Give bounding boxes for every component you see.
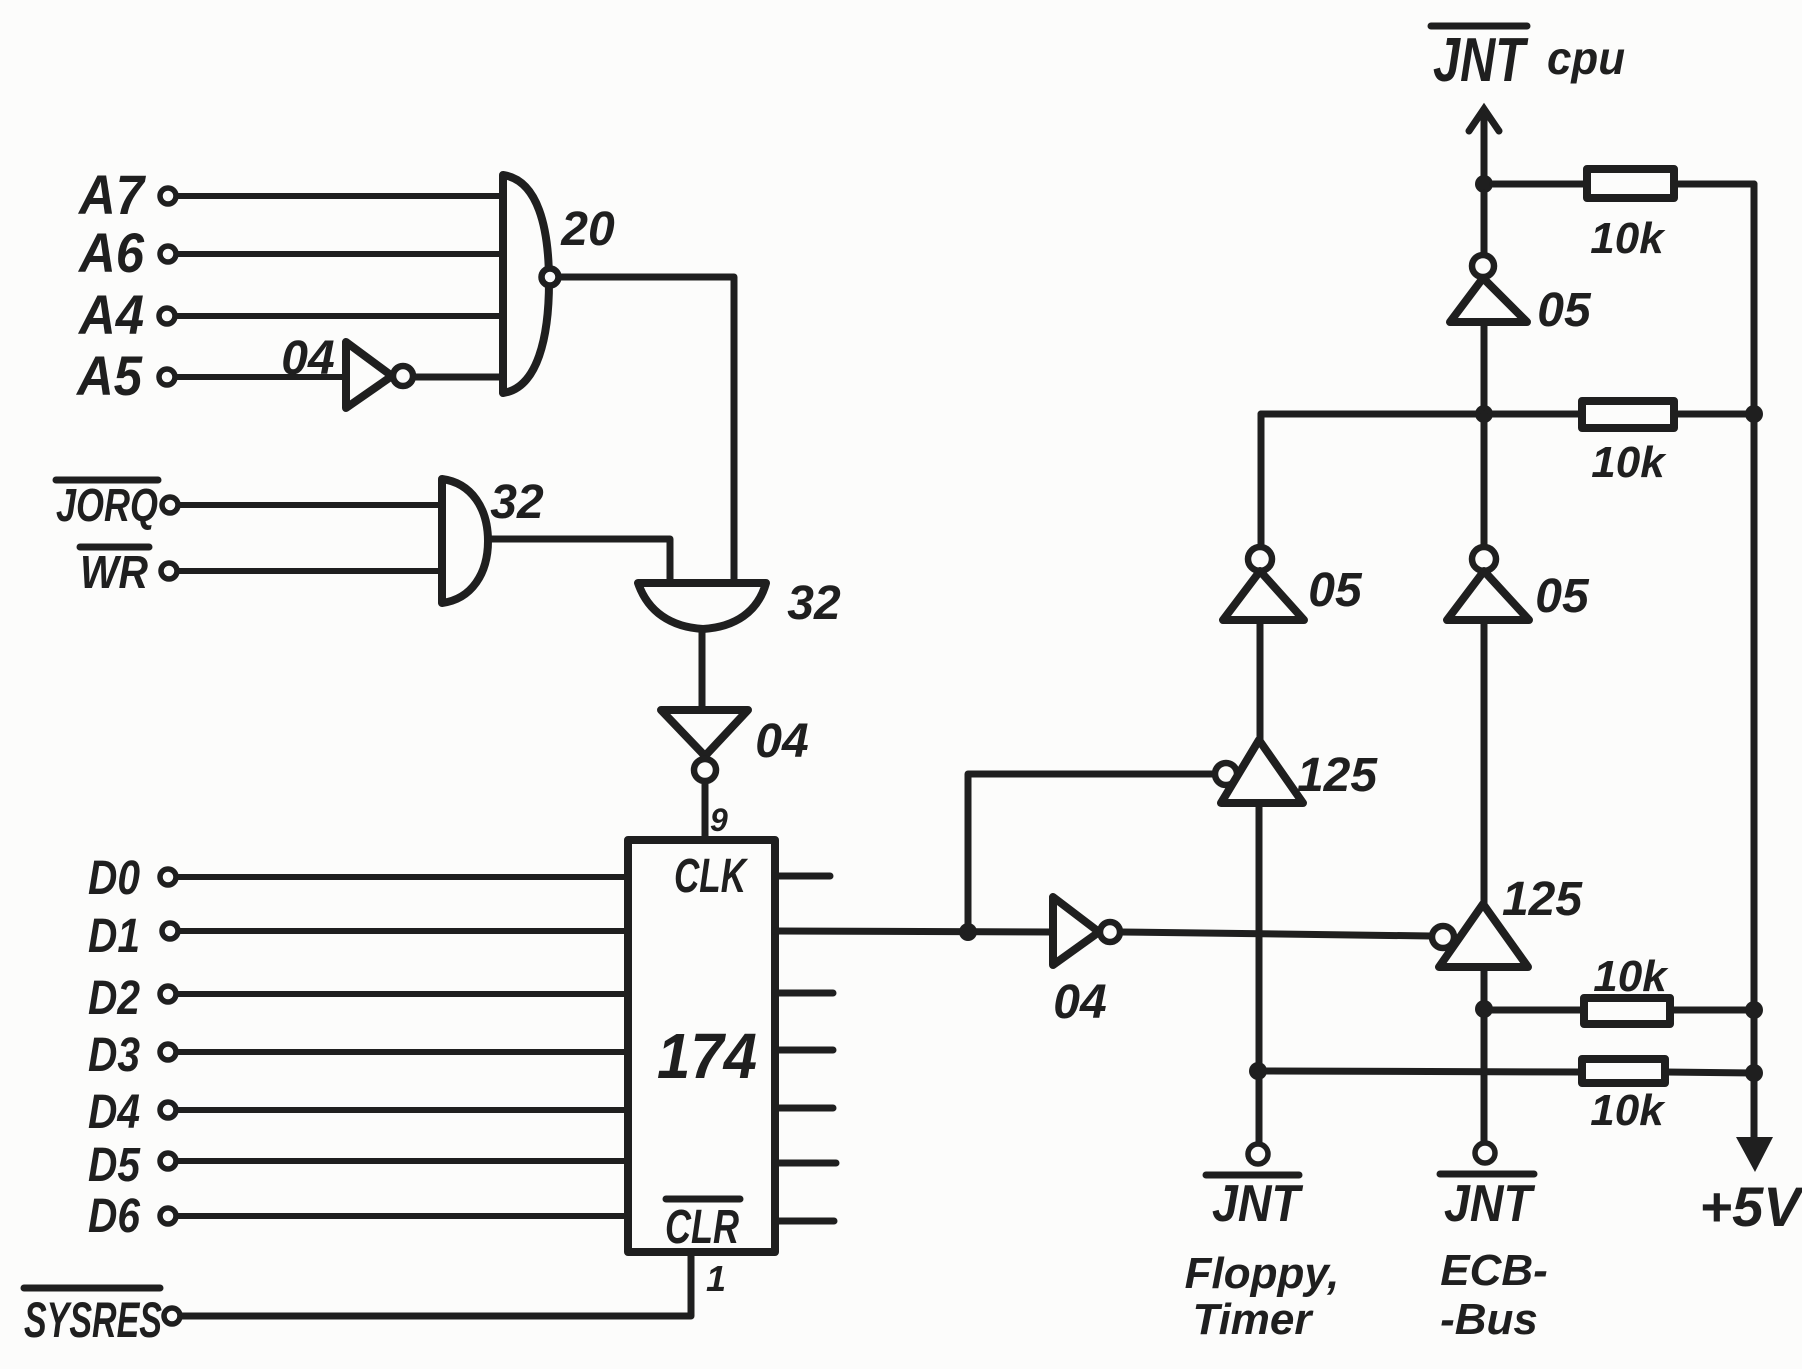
wire resistor R2 to +5V rail <box>1674 411 1754 418</box>
inverter 05 (Floppy) output bubble <box>1248 547 1272 571</box>
inverter 05 (ECB) output bubble <box>1472 547 1496 571</box>
svg-text:05: 05 <box>1537 284 1592 337</box>
wire WR to AND 32 <box>178 568 445 574</box>
flip-flop U1 174 body <box>628 840 775 1252</box>
svg-text:D0: D0 <box>88 852 140 905</box>
junction R4 rail <box>1745 1064 1763 1082</box>
wire arrow shaft <box>1481 112 1488 184</box>
node D4 terminal <box>160 1102 176 1118</box>
resistor R1 body <box>1587 169 1674 198</box>
svg-text:D5: D5 <box>88 1139 141 1192</box>
inverter 05 (CPU) output bubble <box>1472 255 1494 277</box>
junction Q1 wire <box>959 923 977 941</box>
wire inverter 04 output to buffer 125 enable <box>1121 932 1431 936</box>
svg-text:10k: 10k <box>1593 952 1669 1001</box>
junction R2 rail <box>1745 405 1763 423</box>
svg-text:D6: D6 <box>88 1190 140 1243</box>
wire to resistor R1 <box>1493 181 1587 188</box>
node INT Floppy overline <box>1206 1172 1299 1179</box>
wire OR 32 output to inverter 04 <box>699 629 706 709</box>
wire inverter 05 input to row2 <box>1481 322 1488 414</box>
OR gate 32 body <box>638 583 766 629</box>
junction INT ECB pull-up <box>1475 1000 1493 1018</box>
node Bus sublabel <box>1440 1295 1538 1344</box>
wire +5V rail <box>1751 184 1758 1140</box>
svg-text:04: 04 <box>1053 976 1106 1029</box>
wire D0 to 174 <box>177 874 628 880</box>
node D2 label <box>88 972 140 1025</box>
inverter 04 (clock) value label <box>755 715 808 768</box>
AND gate 32 value label <box>490 476 544 529</box>
buffer 125 (Floppy) value label <box>1297 749 1378 802</box>
OR gate 32 value label <box>787 577 841 630</box>
node IORQ overline <box>56 477 158 484</box>
svg-text:32: 32 <box>490 476 544 529</box>
node D1 label <box>88 910 140 963</box>
wire inverter 04 output to NAND 20 <box>414 374 506 381</box>
junction row2 <box>1475 405 1493 423</box>
resistor R2 body <box>1582 401 1674 428</box>
wire NAND 20 output to OR 32 <box>560 277 734 608</box>
node A7 label <box>77 163 146 226</box>
node WR overline <box>80 544 149 551</box>
svg-text:10k: 10k <box>1590 214 1666 263</box>
node D0 terminal <box>160 869 176 885</box>
svg-text:JNT: JNT <box>1212 1175 1304 1233</box>
node INT ECB label <box>1444 1175 1536 1233</box>
resistor R3 body <box>1584 998 1670 1024</box>
wire 174 output Q2 stub <box>775 990 833 997</box>
resistor R1 value 10k <box>1590 214 1666 263</box>
node D3 label <box>88 1029 140 1082</box>
resistor R3 value 10k <box>1593 952 1669 1001</box>
node INT Floppy terminal <box>1248 1144 1268 1164</box>
wire D2 to 174 <box>177 991 628 997</box>
svg-text:+5V: +5V <box>1699 1175 1802 1238</box>
node D2 terminal <box>160 986 176 1002</box>
inverter 04 (Q1) body <box>1053 897 1099 965</box>
inverter 04 (A5) value label <box>281 332 334 385</box>
wire 174 output Q3 stub <box>775 1047 833 1054</box>
value label 174 <box>657 1020 757 1092</box>
wire row2 horizontal <box>1261 411 1582 418</box>
node D6 terminal <box>160 1208 176 1224</box>
svg-text:CLR: CLR <box>665 1201 739 1254</box>
wire D5 to 174 <box>177 1158 628 1164</box>
node IORQ label <box>56 479 158 531</box>
pin 1 label <box>706 1258 726 1299</box>
buffer 125 (ECB) body <box>1439 904 1528 967</box>
node D6 label <box>88 1190 140 1243</box>
pin CLR label <box>665 1201 739 1254</box>
svg-text:125: 125 <box>1502 873 1583 926</box>
node SYSRES label <box>24 1292 162 1348</box>
svg-text:A6: A6 <box>77 221 145 284</box>
inverter 05 (Floppy) body <box>1223 571 1304 620</box>
svg-text:D4: D4 <box>88 1086 140 1139</box>
buffer 125 (Floppy) body <box>1221 740 1303 803</box>
node D5 label <box>88 1139 141 1192</box>
svg-text:CLK: CLK <box>674 850 748 903</box>
node D4 label <box>88 1086 140 1139</box>
node A7 terminal <box>160 188 176 204</box>
svg-text:ECB-: ECB- <box>1440 1246 1548 1295</box>
junction R3 rail <box>1745 1001 1763 1019</box>
node INT CPU overline <box>1431 23 1527 30</box>
node A4 label <box>77 283 144 346</box>
node D1 terminal <box>162 923 178 939</box>
svg-text:JORQ: JORQ <box>56 479 158 531</box>
node IORQ terminal <box>162 497 178 513</box>
wire junction to inverter 05 top bubble <box>1481 193 1488 255</box>
pin 9 label <box>710 802 728 838</box>
resistor R2 value 10k <box>1591 438 1667 487</box>
buffer 125 (Floppy) enable bubble <box>1215 763 1237 785</box>
inverter 04 (Q1) value label <box>1053 976 1106 1029</box>
wire buffer 125 output to INT Floppy terminal <box>1256 803 1263 1142</box>
resistor R4 value 10k <box>1590 1086 1666 1135</box>
junction INT CPU node <box>1475 175 1493 193</box>
node Timer sublabel <box>1192 1295 1314 1344</box>
node WR label <box>80 546 148 598</box>
svg-text:A4: A4 <box>77 283 144 346</box>
svg-text:A7: A7 <box>77 163 146 226</box>
svg-text:1: 1 <box>706 1258 726 1299</box>
wire AND 32 output to OR 32 <box>489 539 670 610</box>
node Floppy sublabel <box>1185 1249 1340 1298</box>
wire inverter 04 to CLK pin <box>702 782 709 839</box>
node A5 label <box>75 344 143 407</box>
wire D3 to 174 <box>177 1049 628 1055</box>
svg-text:32: 32 <box>787 577 841 630</box>
node A6 terminal <box>160 246 176 262</box>
wire 174 output Q6 stub <box>775 1218 834 1225</box>
AND gate 32 body <box>442 479 488 603</box>
wire A5 to inverter 04 <box>176 374 348 380</box>
node SYSRES overline <box>24 1285 160 1292</box>
node D5 terminal <box>160 1153 176 1169</box>
svg-text:05: 05 <box>1535 570 1590 623</box>
wire inverter 05 to buffer 125 input <box>1257 621 1264 740</box>
node INT ECB terminal <box>1475 1143 1495 1163</box>
node D3 terminal <box>160 1044 176 1060</box>
wire 174 output Q1 to inverter 04 <box>775 931 1053 932</box>
NAND gate 20 value label <box>560 203 615 256</box>
svg-text:JNT: JNT <box>1433 26 1529 95</box>
svg-text:125: 125 <box>1297 749 1378 802</box>
svg-text:A5: A5 <box>75 344 143 407</box>
wire Q1 junction to buffer 125 enable <box>968 774 1215 932</box>
wire inverter 05 to buffer 125 ECB input <box>1481 621 1488 904</box>
svg-text:cpu: cpu <box>1547 32 1625 84</box>
wire D6 to 174 <box>177 1213 628 1219</box>
wire D1 to 174 <box>179 928 628 934</box>
node INT Floppy label <box>1212 1175 1304 1233</box>
svg-text:SYSRES: SYSRES <box>24 1292 162 1348</box>
inverter 05 (ECB) value label <box>1535 570 1590 623</box>
wire row2 to inverter 05 Floppy <box>1258 414 1265 547</box>
buffer 125 (ECB) enable bubble <box>1432 926 1454 948</box>
NAND gate 20 body <box>503 175 549 393</box>
junction INT Floppy pull-up <box>1249 1062 1267 1080</box>
buffer 125 (ECB) value label <box>1502 873 1583 926</box>
svg-text:04: 04 <box>755 715 808 768</box>
NAND gate 20 output bubble <box>542 269 559 286</box>
svg-text:Floppy,: Floppy, <box>1185 1249 1340 1298</box>
node A5 terminal <box>159 369 175 385</box>
svg-text:D1: D1 <box>88 910 140 963</box>
wire buffer 125 ECB output to INT ECB terminal <box>1481 967 1488 1142</box>
inverter 04 (A5) output bubble <box>393 366 413 386</box>
pin CLK label <box>674 850 748 903</box>
wire A4 to NAND 20 <box>176 313 506 319</box>
node WR terminal <box>161 563 177 579</box>
inverter 05 (ECB) body <box>1447 571 1529 620</box>
svg-text:04: 04 <box>281 332 334 385</box>
wire 174 output Q0 stub <box>775 873 830 880</box>
svg-text:JNT: JNT <box>1444 1175 1536 1233</box>
wire 174 output Q5 stub <box>775 1160 836 1167</box>
inverter 04 (Q1) output bubble <box>1100 922 1120 942</box>
wire resistor R3 to +5V rail <box>1670 1007 1754 1014</box>
wire resistor R4 to +5V rail <box>1665 1072 1754 1073</box>
wire A7 to NAND 20 <box>177 193 506 199</box>
svg-text:Timer: Timer <box>1192 1295 1314 1344</box>
wire row2 to inverter 05 ECB <box>1481 414 1488 547</box>
node D0 label <box>88 852 140 905</box>
power +5V arrow <box>1736 1137 1773 1172</box>
inverter 05 (Floppy) value label <box>1308 564 1363 617</box>
node CPU sublabel <box>1547 32 1625 84</box>
node A4 terminal <box>159 308 175 324</box>
svg-text:9: 9 <box>710 802 728 838</box>
wire D4 to 174 <box>177 1107 628 1113</box>
resistor R4 body <box>1582 1059 1665 1083</box>
inverter 05 (CPU) body <box>1450 278 1527 322</box>
inverter 04 (clock) body <box>661 710 748 756</box>
wire SYSRES to CLR pin <box>181 1252 691 1316</box>
wire 174 output Q4 stub <box>775 1105 833 1112</box>
svg-text:10k: 10k <box>1591 438 1667 487</box>
node ECB sublabel <box>1440 1246 1548 1295</box>
node SYSRES terminal <box>164 1308 180 1324</box>
svg-text:-Bus: -Bus <box>1440 1295 1538 1344</box>
inverter 04 (clock) output bubble <box>694 759 716 781</box>
wire INT ECB junction to resistor R3 <box>1484 1007 1584 1014</box>
node A6 label <box>77 221 145 284</box>
svg-text:20: 20 <box>560 203 615 256</box>
node INT CPU label <box>1433 26 1529 95</box>
node INT ECB overline <box>1440 1171 1534 1178</box>
svg-text:D2: D2 <box>88 972 140 1025</box>
inverter 04 (A5) body <box>346 342 392 408</box>
svg-text:10k: 10k <box>1590 1086 1666 1135</box>
svg-text:174: 174 <box>657 1020 757 1092</box>
wire IORQ to AND 32 <box>179 502 445 508</box>
inverter 05 (CPU) value label <box>1537 284 1592 337</box>
wire A6 to NAND 20 <box>177 251 506 257</box>
wire INT Floppy junction to resistor R4 <box>1258 1071 1582 1072</box>
svg-text:D3: D3 <box>88 1029 140 1082</box>
svg-text:WR: WR <box>80 546 148 598</box>
pin CLR overline <box>666 1196 740 1203</box>
wire resistor R1 to +5V rail <box>1674 181 1754 188</box>
svg-text:05: 05 <box>1308 564 1363 617</box>
arrow to INT CPU <box>1469 109 1499 131</box>
power +5V label <box>1699 1175 1802 1238</box>
